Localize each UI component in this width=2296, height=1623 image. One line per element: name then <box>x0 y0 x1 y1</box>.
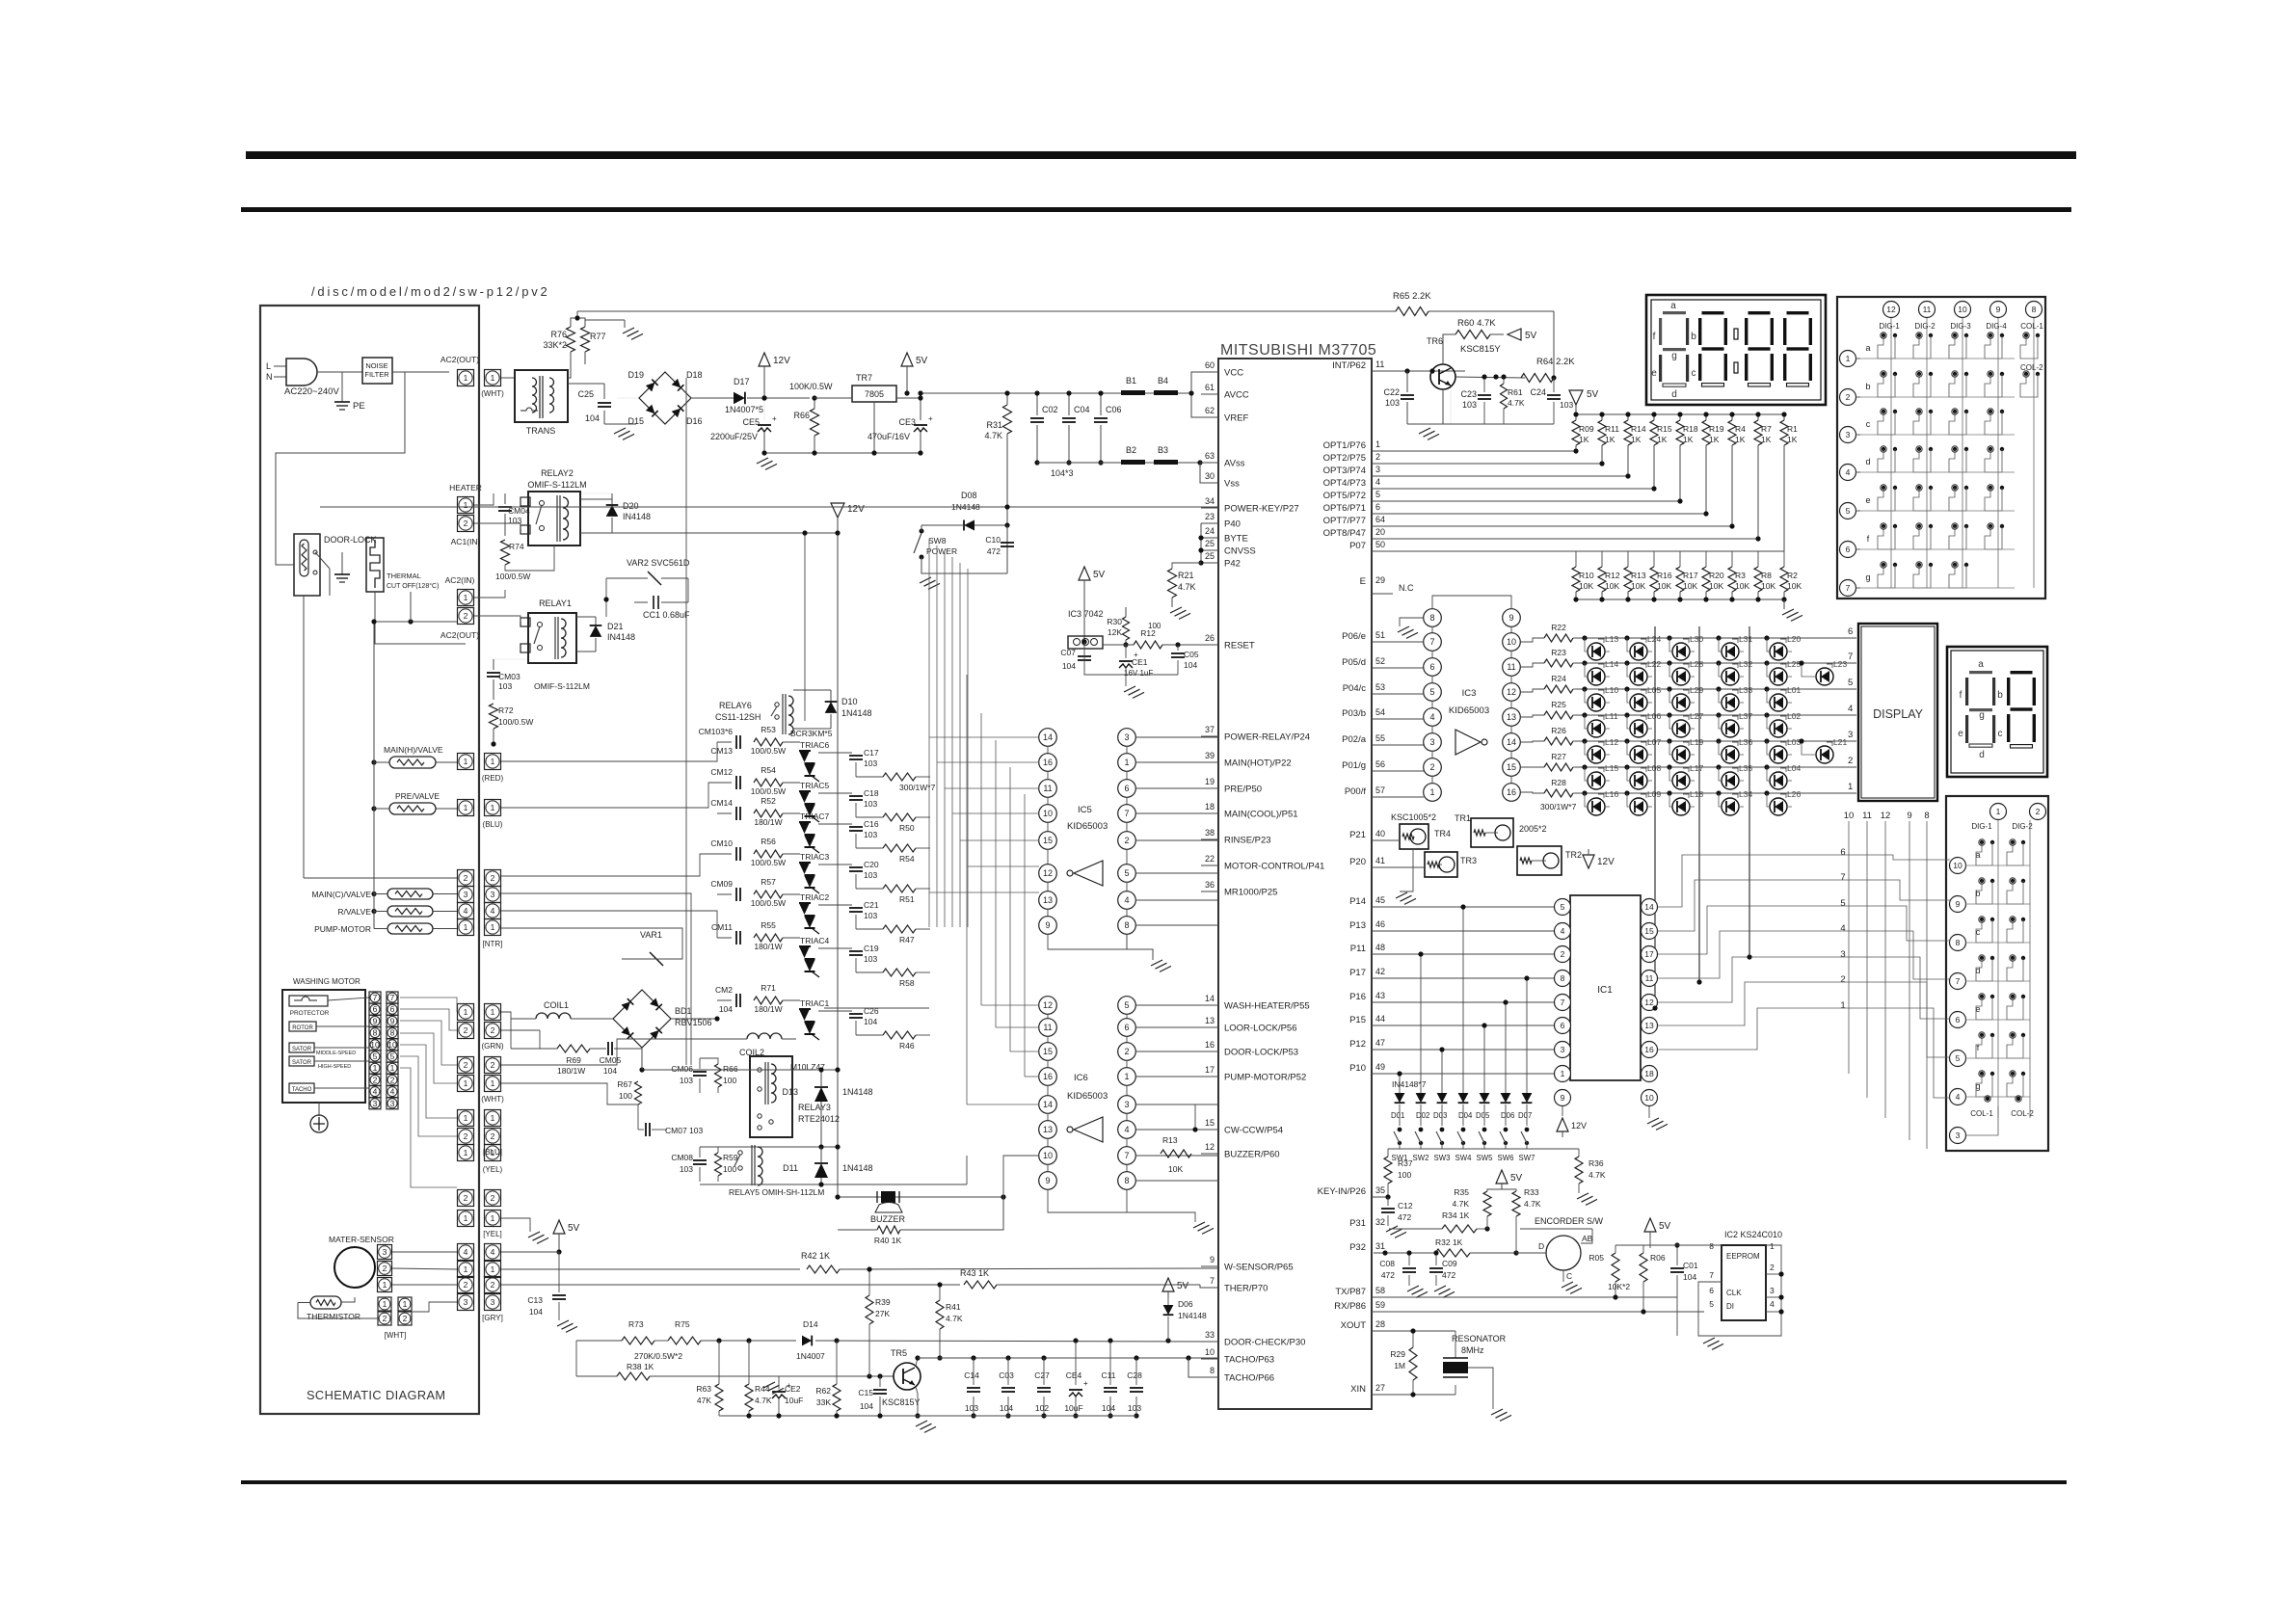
svg-text:15: 15 <box>1205 1118 1215 1128</box>
svg-text:104: 104 <box>585 413 600 423</box>
IC1 to bottom matrix nested wires <box>1658 855 1950 907</box>
svg-text:R77: R77 <box>590 332 606 341</box>
connector YEL2 pair <box>458 1190 474 1207</box>
svg-text:DIG-1: DIG-1 <box>1879 322 1900 331</box>
svg-text:THER/P70: THER/P70 <box>1224 1284 1268 1294</box>
resistor R15 1K <box>1653 414 1655 420</box>
diode D08 1N4148 <box>964 520 974 531</box>
svg-text:1: 1 <box>373 1063 378 1073</box>
svg-text:5V: 5V <box>1510 1173 1523 1184</box>
buzzer wire to IC6 pin10 <box>1003 1156 1039 1197</box>
wire bundle IC6 left <box>981 1004 1039 1006</box>
IC1 right gnd <box>1648 1106 1650 1118</box>
svg-text:L22: L22 <box>1647 659 1661 669</box>
tacho/P66 stub <box>1188 1358 1218 1377</box>
5V arrow top <box>901 353 913 366</box>
svg-text:g: g <box>1865 572 1870 582</box>
svg-text:C05: C05 <box>1184 650 1199 659</box>
svg-text:10uF: 10uF <box>1064 1403 1082 1413</box>
resistor R16 10K <box>1653 551 1655 567</box>
svg-text:6: 6 <box>1124 1023 1129 1032</box>
svg-text:+: + <box>1083 1379 1088 1388</box>
resistor R44 4.7K <box>745 1384 753 1411</box>
svg-text:R12: R12 <box>1605 571 1620 580</box>
svg-text:C06: C06 <box>1106 405 1122 414</box>
LED L12 <box>1588 746 1605 763</box>
svg-text:8MHz: 8MHz <box>1461 1345 1484 1355</box>
cap CE1 16V 1uF <box>1119 660 1133 662</box>
svg-text:15: 15 <box>1507 762 1516 772</box>
svg-text:2: 2 <box>383 1264 387 1273</box>
vertical bus x835 <box>804 533 806 721</box>
resistors R22-R28 <box>1544 634 1573 642</box>
svg-text:D10: D10 <box>841 697 858 706</box>
svg-text:64: 64 <box>1375 515 1385 524</box>
svg-text:36: 36 <box>1205 880 1215 890</box>
svg-text:31: 31 <box>1375 1241 1385 1251</box>
thermistor wires <box>341 1297 355 1302</box>
svg-text:D05: D05 <box>1476 1111 1490 1120</box>
cap C15 104 <box>873 1389 887 1391</box>
svg-text:R28: R28 <box>1551 778 1566 787</box>
svg-text:104: 104 <box>1000 1403 1013 1413</box>
svg-text:1: 1 <box>1840 1000 1845 1011</box>
svg-text:1M: 1M <box>1394 1361 1405 1370</box>
relay RELAY3 RTE24012 <box>750 1056 792 1137</box>
svg-text:32: 32 <box>1375 1217 1385 1227</box>
svg-text:1: 1 <box>491 1264 495 1274</box>
svg-text:9: 9 <box>1508 613 1513 623</box>
svg-text:RX/P86: RX/P86 <box>1334 1301 1366 1312</box>
svg-text:DOOR-CHECK/P30: DOOR-CHECK/P30 <box>1224 1338 1305 1348</box>
svg-text:N: N <box>266 372 273 382</box>
svg-text:103: 103 <box>498 681 512 691</box>
svg-text:51: 51 <box>1375 630 1385 640</box>
svg-text:L35: L35 <box>1739 763 1752 773</box>
svg-text:TRIAC2: TRIAC2 <box>800 892 830 902</box>
svg-text:1: 1 <box>464 1078 468 1088</box>
long verticals column x717 <box>690 894 692 1065</box>
svg-text:(WHT): (WHT) <box>481 1095 504 1104</box>
svg-text:8: 8 <box>1956 938 1961 947</box>
svg-text:R30: R30 <box>1107 617 1122 626</box>
wire 7805 out to AVCC <box>920 393 921 398</box>
svg-text:4: 4 <box>1375 477 1380 487</box>
eeprom wires <box>1677 1244 1722 1246</box>
IC1 box <box>1570 895 1641 1080</box>
capacitor C25 104 <box>598 402 611 404</box>
svg-text:CM09: CM09 <box>710 879 733 889</box>
LED L31 <box>1722 643 1739 660</box>
svg-text:R37: R37 <box>1398 1158 1413 1168</box>
svg-text:2: 2 <box>491 873 495 883</box>
svg-text:L16: L16 <box>1605 789 1618 799</box>
valve wires to triacs <box>501 742 717 761</box>
svg-text:1N4148: 1N4148 <box>1178 1311 1207 1320</box>
svg-text:27: 27 <box>1375 1383 1385 1393</box>
collector wire to R64 <box>1455 377 1525 378</box>
svg-text:d: d <box>1671 389 1677 400</box>
LED L06 <box>1630 720 1647 737</box>
IC5 KID65003 <box>1048 725 1127 939</box>
pin 62 VREF <box>1201 416 1218 418</box>
svg-text:52: 52 <box>1375 656 1385 666</box>
svg-text:R17: R17 <box>1683 571 1698 580</box>
svg-text:WASH-HEATER/P55: WASH-HEATER/P55 <box>1224 1001 1310 1012</box>
svg-text:100/0.5W: 100/0.5W <box>751 858 786 867</box>
svg-text:KID65003: KID65003 <box>1067 1091 1108 1102</box>
svg-text:c: c <box>1976 927 1981 937</box>
svg-text:9: 9 <box>390 1016 395 1025</box>
resistor R13 10K <box>1627 551 1629 567</box>
svg-text:L18: L18 <box>1690 789 1703 799</box>
svg-text:62: 62 <box>1205 406 1215 415</box>
ground C25 <box>614 428 626 434</box>
svg-text:49: 49 <box>1375 1062 1385 1072</box>
wire noise filter to connector <box>392 371 449 373</box>
svg-text:L24: L24 <box>1647 634 1661 644</box>
door-lock assembly <box>294 534 320 596</box>
svg-text:f: f <box>1960 690 1962 701</box>
svg-text:B2: B2 <box>1126 445 1136 455</box>
svg-text:TRIAC3: TRIAC3 <box>800 852 830 862</box>
svg-text:103: 103 <box>864 830 877 839</box>
svg-text:10: 10 <box>1043 809 1053 818</box>
svg-text:103: 103 <box>864 870 877 880</box>
svg-text:2: 2 <box>390 1075 395 1084</box>
svg-text:P20: P20 <box>1349 857 1366 867</box>
svg-text:12: 12 <box>1043 868 1053 878</box>
svg-text:OPT5/P72: OPT5/P72 <box>1323 491 1366 501</box>
svg-text:/disc/model/mod2/sw-p12/pv2: /disc/model/mod2/sw-p12/pv2 <box>311 284 550 299</box>
sator high-speed <box>289 1056 314 1066</box>
diode D04 <box>1458 1093 1469 1103</box>
svg-text:1: 1 <box>491 1078 495 1088</box>
matrix column pins 12 11 10 9 8 <box>1883 302 1900 318</box>
svg-text:L03: L03 <box>1787 737 1801 747</box>
svg-text:1N4148: 1N4148 <box>841 708 872 718</box>
svg-text:CNVSS: CNVSS <box>1224 546 1256 557</box>
svg-text:PUMP-MOTOR/P52: PUMP-MOTOR/P52 <box>1224 1073 1306 1083</box>
svg-text:10: 10 <box>1043 1151 1053 1160</box>
svg-text:14: 14 <box>1043 732 1053 742</box>
svg-text:R8: R8 <box>1761 571 1772 580</box>
diode D02 <box>1416 1093 1427 1103</box>
LED L15 <box>1588 772 1605 789</box>
12V arrow IC1 <box>1562 1106 1563 1116</box>
svg-text:SCHEMATIC DIAGRAM: SCHEMATIC DIAGRAM <box>307 1388 446 1402</box>
svg-text:CM03: CM03 <box>498 672 521 681</box>
pin 30 Vss <box>1201 482 1218 484</box>
svg-text:LOOR-LOCK/P56: LOOR-LOCK/P56 <box>1224 1024 1297 1034</box>
svg-text:1: 1 <box>491 1113 495 1123</box>
LED L03 <box>1770 746 1787 763</box>
diode D06 <box>1501 1093 1511 1103</box>
svg-text:IC3: IC3 <box>1462 688 1477 699</box>
svg-text:THERMISTOR: THERMISTOR <box>307 1312 360 1321</box>
svg-text:10K: 10K <box>1761 581 1775 591</box>
svg-text:5V: 5V <box>1659 1221 1671 1232</box>
diode D10 1N4148 <box>825 702 838 713</box>
svg-text:TRANS: TRANS <box>526 426 556 436</box>
svg-text:C26: C26 <box>864 1006 879 1016</box>
resistor R8 10K <box>1757 551 1759 567</box>
svg-text:4: 4 <box>390 1087 395 1097</box>
svg-text:18: 18 <box>1644 1069 1654 1078</box>
svg-text:9: 9 <box>1045 1176 1050 1185</box>
svg-text:DIG-3: DIG-3 <box>1950 322 1971 331</box>
resistor R37 100 <box>1387 1149 1389 1157</box>
LED L16 <box>1588 798 1605 815</box>
svg-text:P14: P14 <box>1349 896 1366 907</box>
svg-text:EEPROM: EEPROM <box>1726 1252 1760 1261</box>
diode D21 IN4148 <box>590 625 602 637</box>
svg-text:L: L <box>266 361 271 371</box>
svg-text:P32: P32 <box>1349 1242 1366 1253</box>
svg-text:L10: L10 <box>1605 685 1618 695</box>
svg-text:8: 8 <box>1429 613 1434 623</box>
pin 22 MOTOR-CONTROL/P41 <box>1201 865 1218 866</box>
resistor R36 4.7K <box>1578 1149 1580 1157</box>
ac2in wires <box>474 590 505 598</box>
svg-text:D14: D14 <box>803 1319 818 1329</box>
svg-text:104: 104 <box>529 1307 543 1317</box>
svg-text:[WHT]: [WHT] <box>385 1331 407 1340</box>
svg-text:L29: L29 <box>1690 685 1703 695</box>
svg-text:C14: C14 <box>964 1370 979 1380</box>
svg-text:PROTECTOR: PROTECTOR <box>290 1010 330 1017</box>
snubber CM09 R57 + TRIAC2 + C21 R47 <box>735 888 737 901</box>
svg-text:25: 25 <box>1205 539 1215 548</box>
cap CM08 103 + resistor R59 100 <box>693 1159 707 1161</box>
svg-text:P04/c: P04/c <box>1343 683 1367 694</box>
resistor R74 100/0.5W <box>501 540 510 565</box>
svg-text:2: 2 <box>491 1060 495 1070</box>
svg-text:12: 12 <box>1043 1000 1053 1010</box>
svg-text:g: g <box>1671 351 1677 361</box>
svg-text:D16: D16 <box>686 416 703 426</box>
water sensor wires <box>392 1251 457 1253</box>
svg-text:b: b <box>1997 690 2003 701</box>
svg-text:14: 14 <box>1644 902 1654 912</box>
svg-text:D: D <box>1538 1241 1544 1251</box>
svg-text:1: 1 <box>1124 1072 1129 1081</box>
bridge BD1 RBV1506 <box>613 990 671 1048</box>
wires GRN to coil1 <box>501 1029 540 1031</box>
svg-text:L27: L27 <box>1690 711 1703 721</box>
svg-text:2: 2 <box>464 1131 468 1141</box>
svg-text:VAR1: VAR1 <box>640 930 662 940</box>
LED L11 <box>1588 720 1605 737</box>
svg-text:g: g <box>1979 710 1985 721</box>
svg-text:2: 2 <box>1840 974 1845 985</box>
svg-text:CM11: CM11 <box>711 922 733 932</box>
cap C22 103 <box>1401 394 1414 396</box>
svg-text:D11: D11 <box>783 1163 798 1173</box>
R12 100 <box>1134 641 1162 649</box>
LED L36 <box>1722 746 1739 763</box>
svg-text:TR2: TR2 <box>1565 850 1582 860</box>
pin 63 AVss <box>1201 462 1218 464</box>
svg-text:PUMP-MOTOR: PUMP-MOTOR <box>314 924 371 934</box>
svg-text:e: e <box>1958 729 1963 739</box>
svg-text:R53: R53 <box>761 725 776 734</box>
connector GRY stack <box>458 1244 474 1261</box>
svg-text:1: 1 <box>403 1299 408 1309</box>
svg-text:(BLU): (BLU) <box>483 820 503 829</box>
svg-text:16: 16 <box>1205 1040 1215 1050</box>
wire AC2OUT to trans <box>501 377 515 379</box>
IC6 inverter <box>1074 1117 1103 1142</box>
wires sensor to micro <box>501 1251 559 1253</box>
svg-text:W-SENSOR/P65: W-SENSOR/P65 <box>1224 1263 1294 1273</box>
svg-text:3: 3 <box>1840 949 1845 960</box>
svg-text:C03: C03 <box>999 1370 1014 1380</box>
svg-text:1: 1 <box>491 1148 495 1157</box>
svg-text:24: 24 <box>1205 526 1215 536</box>
svg-text:5V: 5V <box>916 356 928 366</box>
svg-text:CM08: CM08 <box>671 1153 693 1162</box>
resistor R69 180/1W + cap CM05 104 <box>557 1045 590 1052</box>
wires triac outputs to left connectors <box>501 1012 511 1019</box>
svg-text:8: 8 <box>1709 1241 1714 1251</box>
svg-text:12: 12 <box>1205 1142 1215 1152</box>
svg-text:1K: 1K <box>1579 435 1589 444</box>
bottom key matrix box <box>1946 796 2048 1151</box>
resistor R10 10K <box>1575 551 1577 567</box>
svg-text:P00/f: P00/f <box>1345 786 1367 797</box>
snubber CM11 R55 + TRIAC4 + C19 R58 <box>735 931 737 945</box>
svg-text:R59: R59 <box>723 1153 738 1162</box>
svg-text:103: 103 <box>864 758 877 768</box>
svg-text:8: 8 <box>2032 305 2037 314</box>
TX RX wires <box>1372 1296 1677 1298</box>
wire bundle IC5 left to triacs <box>928 540 930 927</box>
svg-text:3: 3 <box>491 1297 495 1307</box>
svg-text:CM14: CM14 <box>710 798 733 808</box>
svg-text:2: 2 <box>403 1314 408 1323</box>
resistor R09 1K <box>1575 414 1577 420</box>
svg-text:5: 5 <box>1709 1299 1714 1309</box>
wires P-row to diodes <box>1399 1074 1401 1078</box>
svg-text:5: 5 <box>373 1051 378 1061</box>
svg-text:R71: R71 <box>761 983 776 993</box>
7-seg display 4-digit box <box>1646 295 1826 405</box>
svg-text:100/0.5W: 100/0.5W <box>498 717 533 727</box>
diode D06 1N4148 <box>1163 1305 1174 1315</box>
svg-text:11: 11 <box>1375 359 1384 369</box>
svg-text:R69: R69 <box>566 1055 581 1065</box>
bottom matrix top pins <box>1990 804 2007 820</box>
pin 12 BUZZER/P60 <box>1201 1153 1218 1155</box>
IC3 KID65003 middle <box>1424 609 1442 627</box>
led matrix vertical joins <box>1652 1005 1657 1010</box>
resistor R72 100/0.5W <box>490 704 498 729</box>
svg-text:1: 1 <box>464 1213 468 1223</box>
svg-text:45: 45 <box>1375 895 1385 905</box>
svg-text:4: 4 <box>1429 712 1434 722</box>
svg-text:TACHO/P63: TACHO/P63 <box>1224 1355 1274 1366</box>
svg-text:23: 23 <box>1205 512 1215 521</box>
svg-text:10: 10 <box>1644 1093 1654 1103</box>
svg-text:100: 100 <box>619 1091 632 1101</box>
LED L35 <box>1722 772 1739 789</box>
svg-text:7: 7 <box>1846 583 1851 593</box>
svg-text:10K: 10K <box>1787 581 1802 591</box>
svg-text:5: 5 <box>1375 490 1380 499</box>
resistor R12 10K <box>1601 551 1603 567</box>
LED L37 <box>1722 720 1739 737</box>
svg-text:OPT3/P74: OPT3/P74 <box>1323 466 1366 476</box>
svg-text:1N4148: 1N4148 <box>951 502 980 512</box>
connector GRN pair <box>458 1004 474 1021</box>
svg-text:L04: L04 <box>1787 763 1801 773</box>
XOUT XIN wires <box>1372 1330 1455 1332</box>
svg-text:7: 7 <box>1848 652 1853 662</box>
cap CE2 10uF <box>772 1391 786 1393</box>
svg-text:5: 5 <box>1561 902 1565 912</box>
resistor R13 10K <box>1161 1150 1191 1157</box>
diode D05 <box>1480 1093 1490 1103</box>
svg-text:3: 3 <box>1561 1045 1565 1054</box>
svg-text:10: 10 <box>1844 811 1855 821</box>
svg-text:2: 2 <box>464 873 468 883</box>
svg-text:56: 56 <box>1375 759 1385 769</box>
svg-text:33: 33 <box>1205 1330 1215 1340</box>
svg-text:CM103*6: CM103*6 <box>699 727 734 736</box>
driver wires <box>1372 839 1400 841</box>
svg-text:R55: R55 <box>761 920 776 930</box>
svg-text:3: 3 <box>373 1099 378 1108</box>
svg-text:BYTE: BYTE <box>1224 534 1248 545</box>
svg-text:C18: C18 <box>864 788 879 798</box>
svg-text:COL-1: COL-1 <box>1970 1109 1993 1118</box>
svg-text:R40 1K: R40 1K <box>874 1236 902 1245</box>
thermal cutoff <box>366 538 384 592</box>
door-lock wires <box>329 569 331 596</box>
svg-text:63: 63 <box>1205 451 1215 461</box>
LED L22 <box>1630 668 1647 685</box>
svg-text:2: 2 <box>1848 756 1853 766</box>
svg-text:D07: D07 <box>1518 1111 1532 1120</box>
svg-text:3: 3 <box>491 890 495 899</box>
svg-text:1: 1 <box>390 1063 395 1073</box>
svg-text:472: 472 <box>1442 1270 1455 1280</box>
svg-text:CM13: CM13 <box>710 746 733 756</box>
svg-text:3: 3 <box>1429 737 1434 747</box>
svg-text:6: 6 <box>1429 662 1434 672</box>
svg-text:7: 7 <box>1561 998 1565 1007</box>
svg-text:IC2 KS24C010: IC2 KS24C010 <box>1724 1230 1782 1239</box>
pin 19 PRE/P50 <box>1201 787 1218 789</box>
svg-text:8: 8 <box>1124 920 1129 930</box>
svg-text:4.7K: 4.7K <box>1589 1170 1606 1180</box>
resistor R33 4.7K <box>1512 1191 1520 1216</box>
svg-text:2: 2 <box>1124 836 1129 845</box>
svg-text:8: 8 <box>373 1028 378 1038</box>
wire gry3 join <box>540 1302 576 1341</box>
digit 2 segments <box>1702 311 1724 314</box>
LED L20 <box>1770 643 1787 660</box>
svg-text:AVCC: AVCC <box>1224 390 1249 401</box>
svg-text:472: 472 <box>987 546 1001 556</box>
svg-text:R66: R66 <box>793 411 810 420</box>
svg-text:R22: R22 <box>1551 623 1566 632</box>
colon dots <box>1734 329 1738 339</box>
svg-text:100: 100 <box>1398 1170 1411 1180</box>
ground YEL <box>501 1218 530 1232</box>
key matrix box <box>1837 297 2045 599</box>
